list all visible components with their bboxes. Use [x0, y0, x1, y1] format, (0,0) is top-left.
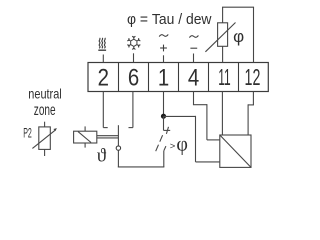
svg-text:11: 11: [218, 63, 230, 89]
tick heat to terminal 2: [102, 55, 104, 63]
terminal divider 11|12: [238, 63, 240, 92]
mechanical link upper line: [97, 135, 119, 137]
contact pivot circle: [116, 146, 120, 150]
switch tick slash: [166, 127, 168, 134]
switch bottom terminal: [163, 151, 165, 167]
relay coil box: [74, 131, 97, 143]
humidity sensor resistor body: [218, 23, 228, 47]
branch wire node to right: [164, 115, 196, 117]
wire 4 down: [206, 104, 208, 140]
switch top terminal: [163, 116, 165, 130]
P2 potentiometer body: [39, 127, 51, 149]
sensor loop top wire: [222, 6, 254, 8]
terminal divider 4|11: [208, 63, 210, 92]
bottom wire: [118, 166, 165, 168]
wire terminal 4 down: [193, 92, 195, 105]
wire terminal 6 down: [132, 92, 134, 128]
svg-text:φ: φ: [233, 27, 244, 46]
svg-text:6: 6: [128, 64, 139, 91]
sensor stem down to terminal 11: [222, 46, 224, 62]
P2 stub above: [44, 122, 46, 127]
svg-text:zone: zone: [34, 102, 56, 119]
mechanical link lower line: [97, 137, 119, 139]
branch wire down: [195, 116, 197, 162]
converter diagonal: [220, 135, 251, 167]
sensor loop right wire to terminal 12: [253, 7, 255, 62]
snowflake (cooling) above terminal 6: [127, 36, 140, 49]
svg-text:>: >: [170, 141, 176, 152]
P2 wiper arrow: [32, 130, 55, 148]
wire 12 left: [248, 104, 254, 106]
wire terminal 11 down: [221, 92, 223, 136]
relay stub below: [84, 143, 86, 148]
terminal divider 1|4: [178, 63, 180, 92]
heating symbol above terminal 2: [98, 38, 106, 50]
switch blade upper segment: [160, 135, 163, 142]
terminal divider 2|6: [118, 63, 120, 92]
fixed contact hook of 6: [129, 127, 133, 129]
wire 12 down to converter: [247, 104, 249, 135]
svg-text:neutral: neutral: [28, 85, 61, 101]
terminal divider 6|1: [148, 63, 150, 92]
converter box: [220, 135, 251, 167]
wire 4 into converter: [207, 139, 220, 141]
contact arm: [117, 125, 119, 146]
svg-text:1: 1: [158, 64, 169, 91]
svg-text:ϑ: ϑ: [97, 145, 107, 166]
node junction dot on wire 1: [161, 114, 166, 119]
switch bottom hook: [164, 146, 166, 151]
tick to terminal 4: [193, 54, 195, 63]
switch blade lower segment: [156, 145, 159, 152]
switch top terminal tick: [164, 129, 171, 131]
svg-text:2: 2: [98, 64, 109, 91]
fixed contact hook of 2: [103, 127, 107, 129]
AC tilde above terminal 1: [159, 34, 168, 36]
svg-text:P2: P2: [23, 125, 32, 141]
sensor stem up: [222, 7, 224, 23]
svg-text:4: 4: [188, 64, 199, 91]
wire pivot down: [117, 150, 119, 167]
relay stub above: [84, 126, 86, 131]
wire terminal 2 down: [102, 92, 104, 128]
tick to terminal 1: [163, 55, 165, 62]
relay coil diagonal: [78, 132, 91, 143]
wire terminal 12 down: [252, 92, 254, 105]
svg-text:12: 12: [245, 66, 261, 91]
P2 stub below: [44, 149, 46, 156]
humidity sensor diagonal: [205, 23, 235, 52]
wire 4 right: [193, 104, 207, 106]
plus polarity above terminal 1: [160, 45, 167, 52]
tick snowflake to terminal 6: [133, 53, 135, 62]
minus polarity above terminal 4: [190, 47, 197, 49]
terminal block outline: [88, 63, 268, 92]
branch wire into converter: [196, 161, 220, 163]
wire terminal 1 down to node: [163, 92, 165, 117]
svg-text:φ: φ: [176, 134, 188, 156]
svg-text:φ = Tau / dew: φ = Tau / dew: [127, 12, 212, 28]
AC tilde above terminal 4: [189, 35, 198, 37]
